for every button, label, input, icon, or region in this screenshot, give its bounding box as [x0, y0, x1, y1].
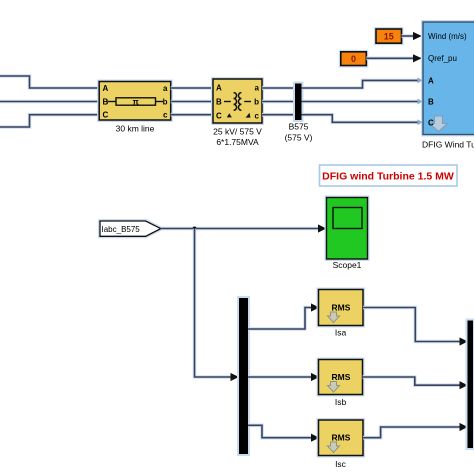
svg-text:DFIG wind Turbine 1.5 MW: DFIG wind Turbine 1.5 MW	[322, 171, 454, 183]
svg-text:RMS: RMS	[332, 433, 351, 443]
svg-text:B575: B575	[289, 122, 309, 132]
bus B575 measurement bar	[295, 84, 302, 121]
svg-text:Isa: Isa	[335, 328, 347, 338]
block 30 km line (pi-section line)	[99, 82, 171, 121]
svg-text:Qref_pu: Qref_pu	[428, 54, 457, 63]
wire phase C from left edge to 30 km line port C	[0, 115, 99, 127]
wire B 30km line to transformer	[171, 100, 213, 104]
svg-text:c: c	[163, 111, 168, 120]
svg-text:25 kV/ 575 V: 25 kV/ 575 V	[213, 127, 262, 137]
wire C 30km line to transformer	[171, 113, 213, 117]
svg-text:RMS: RMS	[332, 372, 351, 382]
constant block 0 (Qref)	[341, 52, 367, 66]
wire demux out3 to RMS Isc	[248, 425, 319, 442]
port stub A	[418, 77, 423, 83]
wire constant 0 to Qref input	[366, 54, 422, 62]
wire b transformer to bus B575	[262, 100, 295, 104]
svg-text:π: π	[133, 97, 139, 106]
svg-text:c: c	[255, 112, 260, 121]
annotation DFIG wind Turbine 1.5 MW	[320, 165, 458, 186]
demux (signal selector bar)	[239, 298, 248, 454]
scope Scope1	[327, 198, 368, 260]
svg-text:Scope1: Scope1	[333, 260, 362, 270]
svg-text:6*1.75MVA: 6*1.75MVA	[216, 137, 259, 147]
mux bar at right edge	[468, 321, 474, 449]
wire bus to DFIG port B	[302, 100, 420, 104]
wire Iabc tag to Scope1	[161, 224, 326, 232]
wire a transformer to bus B575	[262, 86, 295, 90]
DFIG Wind Turbine block	[418, 22, 474, 135]
wire constant 15 to Wind input	[402, 32, 422, 40]
wire bus to DFIG port A	[302, 80, 420, 88]
svg-text:A: A	[103, 84, 109, 93]
RMS block Isb	[319, 360, 363, 395]
port stub C	[418, 119, 423, 125]
right winding arcs	[238, 93, 241, 111]
svg-text:30 km line: 30 km line	[116, 124, 155, 134]
svg-text:a: a	[163, 84, 168, 93]
wire phase A from left edge to 30 km line port A	[0, 76, 99, 88]
svg-text:C: C	[428, 118, 434, 127]
svg-text:Wind (m/s): Wind (m/s)	[428, 32, 467, 41]
svg-text:DFIG Wind Turbine: DFIG Wind Turbine	[422, 140, 474, 150]
wire demux out1 to RMS Isa	[248, 303, 319, 329]
RMS block Isc	[319, 420, 364, 456]
svg-text:(575 V): (575 V)	[285, 133, 313, 143]
wye ground winding symbol	[246, 113, 251, 118]
svg-text:A: A	[428, 76, 434, 85]
delta winding symbol	[227, 113, 232, 117]
wire RMS Isa to mux	[363, 308, 468, 346]
svg-text:15: 15	[384, 32, 394, 42]
wire phase B from left edge to 30 km line port B	[0, 100, 99, 104]
From tag Iabc_B575	[100, 221, 161, 236]
svg-text:Isb: Isb	[335, 397, 347, 407]
wire c transformer to bus B575	[262, 113, 295, 117]
svg-text:b: b	[163, 98, 168, 107]
svg-text:B: B	[216, 98, 222, 107]
svg-text:A: A	[216, 84, 222, 93]
svg-text:B: B	[428, 98, 434, 107]
RMS block Isa	[319, 290, 364, 326]
svg-text:C: C	[103, 111, 109, 120]
left winding arcs	[234, 93, 237, 111]
svg-text:b: b	[254, 98, 259, 107]
look-under-mask arrow on DFIG	[430, 116, 448, 132]
junction node on scope wire	[193, 227, 197, 231]
winding stub lines	[224, 101, 231, 103]
wire A 30km line to transformer	[171, 86, 213, 90]
svg-text:a: a	[255, 84, 260, 93]
svg-text:RMS: RMS	[332, 303, 351, 313]
svg-text:Isc: Isc	[335, 459, 347, 469]
svg-text:0: 0	[351, 54, 356, 64]
port stub B	[418, 99, 423, 105]
wire RMS Isb to mux	[363, 377, 468, 389]
wire RMS Isc to mux	[363, 423, 468, 438]
wire junction down to demux input	[195, 229, 239, 382]
wire demux out2 to RMS Isb	[248, 373, 319, 381]
svg-text:C: C	[216, 112, 222, 121]
constant block 15 (wind speed)	[376, 29, 402, 43]
svg-text:Iabc_B575: Iabc_B575	[102, 225, 141, 234]
wire bus to DFIG port C	[302, 115, 420, 123]
transformer 25 kV/575 V 6*1.75 MVA	[213, 79, 262, 123]
